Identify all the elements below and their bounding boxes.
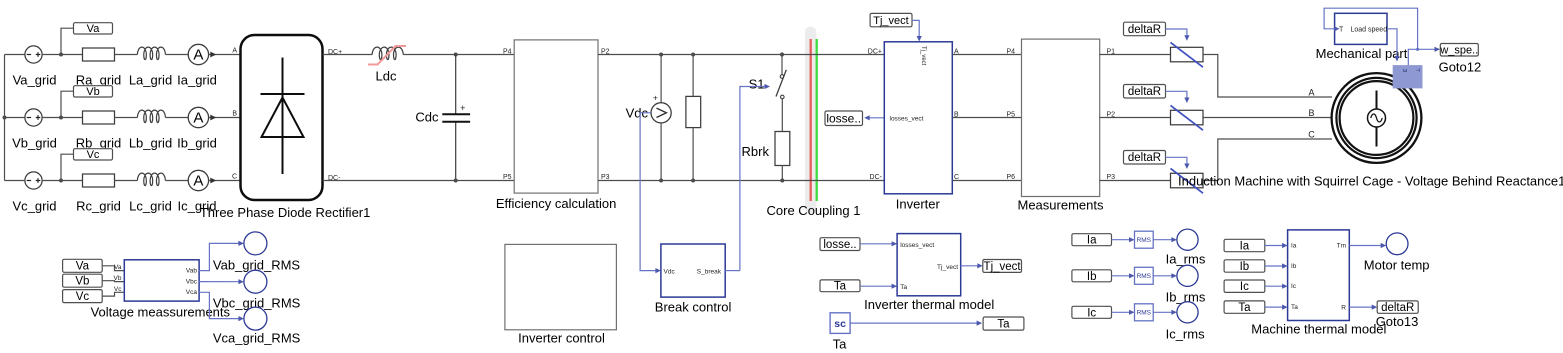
svg-text:Ia_grid: Ia_grid: [177, 73, 217, 88]
junction DC+ at Cdc: [454, 53, 458, 57]
junction speed signal: [1416, 48, 1419, 51]
goto tag Vc: [74, 149, 113, 160]
svg-text:A: A: [193, 47, 203, 64]
signal wire Ib to RMS: [1112, 275, 1132, 277]
svg-text:Vc_grid: Vc_grid: [12, 199, 56, 214]
wire neutral bus: [4, 55, 6, 181]
wire measurements to variable resistor row 2: [1100, 117, 1171, 119]
svg-text:RMS: RMS: [1137, 310, 1152, 317]
goto tag Ia rms input: [1072, 234, 1112, 246]
block Machine thermal model: [1288, 230, 1350, 321]
signal wire RMS to scope Ia_rms: [1153, 239, 1174, 241]
svg-text:deltaR: deltaR: [1128, 86, 1161, 98]
svg-text:C: C: [1308, 130, 1315, 140]
svg-text:Motor temp: Motor temp: [1364, 257, 1430, 272]
svg-text:Core Coupling 1: Core Coupling 1: [767, 203, 861, 218]
svg-text:Vbc: Vbc: [186, 279, 198, 286]
inductor Lb_grid: [137, 110, 165, 122]
node junction row A: [59, 53, 63, 57]
scope Motor temp: [1386, 233, 1408, 255]
svg-text:Vab: Vab: [186, 268, 197, 275]
inverter block: [884, 42, 952, 194]
node junction row C: [59, 179, 63, 183]
ammeter Ic_grid: [188, 170, 208, 190]
junction top rail S1: [780, 52, 784, 56]
signal wire R to deltaR tag: [1349, 306, 1374, 308]
svg-text:Vca: Vca: [186, 289, 198, 296]
svg-text:Tm: Tm: [1337, 243, 1346, 250]
svg-text:Va: Va: [87, 23, 101, 35]
block Break control: [661, 244, 725, 297]
svg-text:sc: sc: [834, 318, 846, 330]
resistor Rc_grid: [83, 174, 115, 187]
svg-text:Ia: Ia: [1240, 240, 1250, 252]
induction machine ring outer: [1336, 78, 1416, 158]
goto tag Vb input: [63, 274, 103, 287]
wire measurements to variable resistor row 3: [1100, 180, 1171, 182]
signal wire Ic to machine thermal: [1265, 285, 1285, 287]
signal wire deltaR tag to resistor row 1: [1166, 29, 1187, 38]
resistor across DC link: [686, 96, 701, 127]
wire ammeter to rectifier port A: [209, 54, 241, 56]
voltage source Vc_grid: [25, 172, 42, 189]
block Inverter control: [505, 244, 617, 329]
goto tag Vb: [74, 86, 113, 97]
svg-text:losses_vect: losses_vect: [900, 242, 934, 249]
junction top rail Rdc: [691, 53, 695, 57]
goto tag Ic rms input: [1072, 306, 1112, 318]
wire ammeter to rectifier port C: [209, 180, 241, 182]
wire resistor to inductor La_grid: [115, 54, 138, 56]
signal wire thermal to Tj_vect tag: [961, 265, 980, 267]
svg-text:RMS: RMS: [1137, 237, 1152, 244]
wire node to resistor Ra_grid: [61, 54, 83, 56]
wire ammeter to rectifier port B: [209, 117, 241, 119]
signal wire Vca to scope: [199, 292, 241, 318]
svg-text:La_grid: La_grid: [129, 73, 172, 88]
svg-text:Ldc: Ldc: [376, 69, 397, 84]
scope Ib_rms: [1177, 265, 1198, 286]
wire to voltage tag Va: [61, 28, 74, 54]
goto tag Ia machine thermal: [1224, 239, 1265, 251]
svg-text:deltaR: deltaR: [1128, 152, 1161, 164]
capacitor Cdc: [455, 55, 457, 114]
wire inverter C to measurements P6: [952, 180, 1021, 182]
goto tag Va: [74, 23, 113, 34]
signal wire Mechanical part output to machine: [1387, 29, 1397, 59]
svg-text:Tj_vect: Tj_vect: [984, 261, 1022, 273]
svg-text:Ib_grid: Ib_grid: [177, 136, 217, 151]
svg-text:Three Phase Diode Rectifier1: Three Phase Diode Rectifier1: [200, 205, 371, 220]
variable resistor row 1: [1171, 47, 1204, 62]
svg-text:Vc: Vc: [76, 291, 90, 303]
svg-text:S_break: S_break: [697, 269, 722, 276]
block Measurements: [1022, 39, 1100, 196]
resistor Rb_grid: [83, 111, 115, 124]
wire tag Vc to block: [102, 292, 124, 296]
wire measurements to variable resistor row 1: [1100, 54, 1171, 56]
svg-text:Ta: Ta: [834, 281, 847, 293]
svg-text:P4: P4: [503, 49, 512, 56]
inductor La_grid: [137, 47, 165, 59]
goto tag losse.. thermal: [820, 238, 860, 251]
svg-text:losse..: losse..: [826, 111, 861, 125]
ammeter Ia_grid: [188, 44, 208, 64]
goto tag Ta input thermal: [820, 280, 860, 292]
svg-text:Load speed: Load speed: [1351, 27, 1388, 34]
svg-text:T: T: [1339, 27, 1344, 34]
svg-text:Ta: Ta: [900, 284, 907, 291]
svg-text:C: C: [232, 174, 237, 181]
svg-text:Vb: Vb: [86, 86, 99, 98]
inductor Lc_grid: [137, 173, 165, 185]
wire node to resistor Rc_grid: [61, 180, 83, 182]
svg-text:A: A: [232, 48, 237, 55]
scope Ia_rms: [1177, 229, 1198, 250]
svg-text:+: +: [460, 103, 465, 113]
goto tag Va input: [63, 259, 103, 272]
svg-text:Vb: Vb: [114, 275, 122, 282]
wire Ldc to efficiency block P4: [403, 54, 514, 56]
wire inductor to ammeter Ib_grid: [165, 117, 188, 119]
goto tag Vc input: [63, 290, 103, 303]
signal wire deltaR tag to resistor row 3: [1166, 157, 1187, 166]
svg-text:deltaR: deltaR: [1381, 302, 1414, 314]
svg-text:A: A: [193, 110, 203, 127]
signal wire Vdc measurement to Break control: [640, 113, 658, 271]
port arrow into Mechanical part: [1335, 26, 1340, 31]
svg-text:Vc: Vc: [87, 149, 100, 161]
svg-text:Vb: Vb: [75, 276, 89, 288]
induction machine ring inner: [1340, 81, 1414, 155]
svg-text:Measurements: Measurements: [1018, 198, 1104, 213]
diode symbol inside rectifier: [282, 58, 284, 175]
wire bus to source Va_grid: [5, 54, 25, 56]
signal wire speed feedback to Mechanical part: [1324, 8, 1418, 49]
svg-text:losses_vect: losses_vect: [890, 116, 924, 123]
block Inverter thermal model: [897, 234, 961, 296]
wire source to node A: [42, 54, 61, 56]
goto tag Ib machine thermal: [1224, 260, 1265, 272]
wire inverter A to measurements P4: [952, 54, 1021, 56]
svg-text:+: +: [653, 93, 658, 103]
wire resistor to inductor Lc_grid: [115, 180, 138, 182]
wire to voltage tag Vc: [61, 154, 74, 180]
signal wire Break control to S1: [740, 87, 767, 271]
wire inductor to ammeter Ic_grid: [165, 180, 188, 182]
inductor Ldc: [372, 47, 403, 59]
wire source to node B: [42, 117, 61, 119]
svg-text:Inverter control: Inverter control: [518, 331, 605, 346]
junction DC- at Cdc: [454, 179, 458, 183]
wire top rail to resistor: [692, 55, 694, 97]
breaker S1: [780, 75, 784, 79]
signal wire Ic to RMS: [1112, 311, 1132, 313]
wire S1 to Rbrk: [781, 99, 783, 132]
block Mechanical part: [1335, 13, 1387, 44]
junction on neutral bus: [3, 116, 7, 120]
svg-text:Tj_vect: Tj_vect: [937, 264, 958, 271]
svg-text:ω: ω: [1403, 68, 1408, 74]
signal wire Ia to machine thermal: [1265, 245, 1285, 247]
goto tag deltaR output: [1377, 301, 1418, 313]
wire bus to source Vc_grid: [5, 180, 25, 182]
svg-text:DC-: DC-: [870, 174, 883, 181]
variable resistor row 3: [1171, 173, 1204, 188]
wire variable resistor 1 to machine terminal A: [1203, 55, 1332, 98]
svg-text:Tj_vect: Tj_vect: [920, 46, 926, 66]
svg-text:Lc_grid: Lc_grid: [129, 199, 172, 214]
ammeter Ib_grid: [188, 107, 208, 127]
goto tag deltaR row 1: [1124, 22, 1166, 36]
goto tag Ta machine thermal: [1224, 301, 1265, 313]
wire resistor to bottom rail: [692, 128, 694, 181]
svg-text:losse..: losse..: [823, 239, 856, 251]
svg-text:Vdc: Vdc: [664, 269, 676, 276]
svg-text:A: A: [193, 173, 203, 190]
core coupling red line: [810, 39, 812, 201]
RMS block Ic: [1135, 304, 1154, 321]
goto tag Tj_vect output: [983, 260, 1022, 273]
svg-text:w_spe..: w_spe..: [1439, 44, 1478, 56]
wire S_break output: [725, 270, 740, 272]
svg-text:Ic: Ic: [1291, 283, 1297, 290]
induction machine outer circle: [1332, 73, 1422, 163]
voltage source Vb_grid: [25, 109, 42, 126]
signal wire RMS to scope Ic_rms: [1153, 311, 1174, 313]
svg-text:Tj_vect: Tj_vect: [873, 15, 908, 27]
wire voltmeter to bottom rail: [660, 123, 662, 181]
wire bus to source Vb_grid: [5, 117, 25, 119]
wire resistor to inductor Lb_grid: [115, 117, 138, 119]
signal wire Vab to scope: [199, 243, 241, 270]
signal wire Vbc to scope: [199, 281, 241, 283]
core coupling green line: [816, 39, 818, 201]
wire source to node C: [42, 180, 61, 182]
scope Vab_grid_RMS: [244, 232, 267, 255]
core coupling capsule: [805, 27, 816, 214]
wire rectifier DC- to efficiency block P5: [323, 180, 515, 182]
svg-text:Ta: Ta: [833, 336, 848, 351]
wire tag Vb to block: [102, 280, 124, 283]
svg-text:Ib: Ib: [1087, 271, 1097, 283]
arrow into Goto12: [1435, 47, 1441, 52]
svg-text:Break control: Break control: [655, 300, 732, 315]
variable resistor row 2: [1171, 110, 1204, 125]
block Efficiency calculation: [514, 40, 598, 193]
svg-text:Machine thermal model: Machine thermal model: [1251, 321, 1386, 336]
signal wire Ta to machine thermal: [1265, 306, 1285, 308]
signal wire losses to thermal model: [860, 243, 894, 245]
induction machine center source: [1368, 109, 1386, 127]
goto tag Tj_vect above inverter: [870, 13, 912, 26]
wire inductor to ammeter Ia_grid: [165, 54, 188, 56]
svg-text:Ib: Ib: [1291, 263, 1297, 270]
wire inverter B to measurements P5: [952, 117, 1021, 119]
svg-text:R: R: [1341, 305, 1346, 312]
svg-text:Vb_grid: Vb_grid: [12, 136, 57, 151]
junction bottom rail Vdc: [659, 179, 663, 183]
resistor Ra_grid: [83, 48, 115, 61]
svg-text:Goto12: Goto12: [1439, 60, 1482, 75]
svg-text:Ic_rms: Ic_rms: [1166, 327, 1206, 342]
wire top rail to voltmeter Vdc: [660, 55, 662, 103]
svg-text:P5: P5: [1006, 112, 1015, 119]
junction top rail Vdc: [659, 53, 663, 57]
RMS block Ia: [1135, 231, 1154, 248]
junction bottom rail Rdc: [691, 179, 695, 183]
svg-text:Ia_rms: Ia_rms: [1166, 251, 1206, 266]
svg-text:Ic: Ic: [1240, 281, 1249, 293]
svg-text:P6: P6: [1006, 174, 1015, 181]
svg-text:Mechanical part: Mechanical part: [1316, 46, 1408, 61]
junction bottom rail Rbrk: [780, 179, 784, 183]
svg-text:⊣: ⊣: [1416, 67, 1421, 74]
voltmeter Vdc: [651, 103, 671, 123]
goto tag Ib rms input: [1072, 270, 1112, 282]
constant block sc: [830, 313, 850, 334]
wire variable resistor 2 to machine terminal B: [1203, 117, 1332, 119]
goto tag Ta output: [983, 317, 1024, 330]
svg-text:Induction Machine with Squirre: Induction Machine with Squirrel Cage - V…: [1178, 174, 1563, 189]
svg-text:P5: P5: [503, 174, 512, 181]
node junction row B: [59, 116, 63, 120]
wire to voltage tag Vb: [61, 91, 74, 117]
svg-text:Rc_grid: Rc_grid: [76, 199, 121, 214]
svg-text:Inverter thermal model: Inverter thermal model: [864, 297, 994, 312]
signal wire machine speed output: [1408, 49, 1437, 65]
goto tag Ic machine thermal: [1224, 280, 1265, 292]
RMS block Ib: [1135, 267, 1154, 284]
svg-text:Lb_grid: Lb_grid: [129, 136, 172, 151]
wire DC+ rail to inverter: [598, 54, 884, 56]
wire variable resistor 3 to machine terminal C: [1203, 139, 1332, 181]
svg-text:Ta: Ta: [1238, 302, 1251, 314]
svg-text:Ia: Ia: [1291, 243, 1297, 250]
svg-text:P4: P4: [1006, 49, 1015, 56]
resistor Rbrk: [775, 132, 790, 166]
svg-text:B: B: [232, 111, 237, 118]
svg-text:Inverter: Inverter: [896, 197, 941, 212]
svg-text:Ib: Ib: [1240, 261, 1250, 273]
svg-text:Va: Va: [76, 261, 90, 273]
svg-text:S1: S1: [749, 77, 765, 92]
goto tag losse.. for inverter losses: [825, 111, 863, 126]
svg-text:Ic: Ic: [1087, 307, 1096, 319]
svg-text:Cdc: Cdc: [415, 110, 439, 125]
voltage source Va_grid: [25, 46, 42, 63]
scope Vbc_grid_RMS: [244, 270, 267, 293]
scope Ic_rms: [1177, 302, 1198, 323]
signal wire Ib to machine thermal: [1265, 265, 1285, 267]
goto tag deltaR row 3: [1124, 151, 1166, 165]
selected machine speed port block: [1393, 65, 1423, 88]
svg-text:Vca_grid_RMS: Vca_grid_RMS: [213, 331, 301, 346]
signal wire deltaR tag to resistor row 2: [1166, 91, 1187, 100]
svg-text:Va: Va: [114, 264, 122, 271]
signal wire Ta to thermal model: [860, 285, 894, 287]
wire top rail to breaker S1: [781, 55, 783, 75]
svg-text:RMS: RMS: [1137, 273, 1152, 280]
svg-text:Va_grid: Va_grid: [13, 73, 57, 88]
three-phase diode rectifier block Three Phase Diode Rectifier1: [241, 35, 323, 200]
scope Vca_grid_RMS: [244, 307, 267, 330]
wire Rbrk to bottom rail: [781, 166, 783, 181]
wire rectifier DC+ to Ldc: [323, 54, 373, 56]
signal wire inverter losses_vect to tag: [867, 117, 887, 119]
svg-text:Ta: Ta: [997, 319, 1010, 331]
goto tag deltaR row 2: [1124, 85, 1166, 99]
signal wire sc to Ta tag: [850, 322, 979, 324]
svg-text:deltaR: deltaR: [1128, 24, 1161, 36]
signal wire RMS to scope Ib_rms: [1153, 275, 1174, 277]
wire DC- rail to inverter: [598, 180, 884, 182]
induction machine shaft: [1376, 91, 1378, 147]
svg-text:Vc: Vc: [114, 286, 122, 293]
svg-text:Rbrk: Rbrk: [742, 144, 770, 159]
svg-text:Ta: Ta: [1291, 304, 1298, 311]
svg-text:Ia: Ia: [1087, 235, 1097, 247]
block Voltage meassurements: [124, 260, 199, 301]
wire tag Va to block: [102, 266, 124, 271]
signal wire Tm to scope: [1349, 245, 1383, 247]
saturation curve on Ldc: [368, 46, 406, 65]
signal wire Ia to RMS: [1112, 239, 1132, 241]
goto tag w_spe..: [1440, 44, 1478, 57]
wire node to resistor Rb_grid: [61, 117, 83, 119]
signal wire Tj_vect tag to inverter top: [912, 20, 919, 38]
svg-text:Efficiency calculation: Efficiency calculation: [496, 196, 616, 211]
svg-text:DC+: DC+: [868, 49, 882, 56]
svg-text:A: A: [1308, 88, 1314, 98]
svg-text:B: B: [1308, 108, 1314, 118]
